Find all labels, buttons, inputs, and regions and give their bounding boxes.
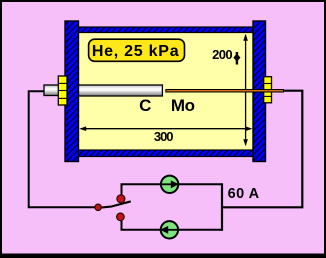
svg-text:60 A: 60 A bbox=[228, 186, 260, 202]
svg-text:C: C bbox=[139, 96, 151, 115]
wire: right electrode down and to junction bbox=[222, 91, 302, 208]
wire: right junction vertical bbox=[221, 183, 223, 231]
molybdenum wire Mo (passes over wall and terminal) bbox=[165, 89, 284, 93]
gas label box: He, 25 kPa bbox=[89, 39, 185, 61]
left wall (hatched) bbox=[65, 21, 79, 162]
switch contact (upper throw) bbox=[117, 195, 125, 203]
small up-down arrow glyph next to 200 bbox=[233, 52, 240, 65]
wire: left electrode down and to switch bbox=[29, 91, 96, 207]
wire: bottom branch bbox=[122, 217, 223, 230]
carbon electrode rod C (inside chamber) bbox=[77, 85, 162, 96]
svg-text:Mo: Mo bbox=[171, 96, 195, 115]
dimension line 300 (horizontal) bbox=[79, 126, 252, 131]
right wall (hatched) bbox=[253, 21, 266, 162]
right terminal block (yellow) bbox=[264, 77, 272, 103]
chamber interior (He gas volume) bbox=[79, 33, 254, 151]
switch arm bbox=[97, 201, 131, 208]
switch contact (common, left) bbox=[95, 204, 101, 210]
dimension line 200 (vertical) bbox=[243, 34, 248, 147]
svg-text:He, 25 kPa: He, 25 kPa bbox=[92, 43, 180, 60]
top wall (hatched) bbox=[79, 27, 254, 33]
outer electrode stub (left feedthrough rod) bbox=[44, 85, 60, 96]
wire: top branch bbox=[122, 184, 223, 199]
current source bottom (arrow left) bbox=[160, 221, 178, 238]
bottom wall (hatched) bbox=[79, 150, 254, 157]
svg-text:200: 200 bbox=[212, 47, 232, 62]
left terminal block (yellow) bbox=[58, 76, 67, 105]
outer border frame bbox=[0, 0, 326, 2]
current source top (arrow right) bbox=[161, 176, 179, 193]
switch contact (lower throw) bbox=[117, 213, 125, 221]
svg-text:300: 300 bbox=[154, 129, 173, 144]
